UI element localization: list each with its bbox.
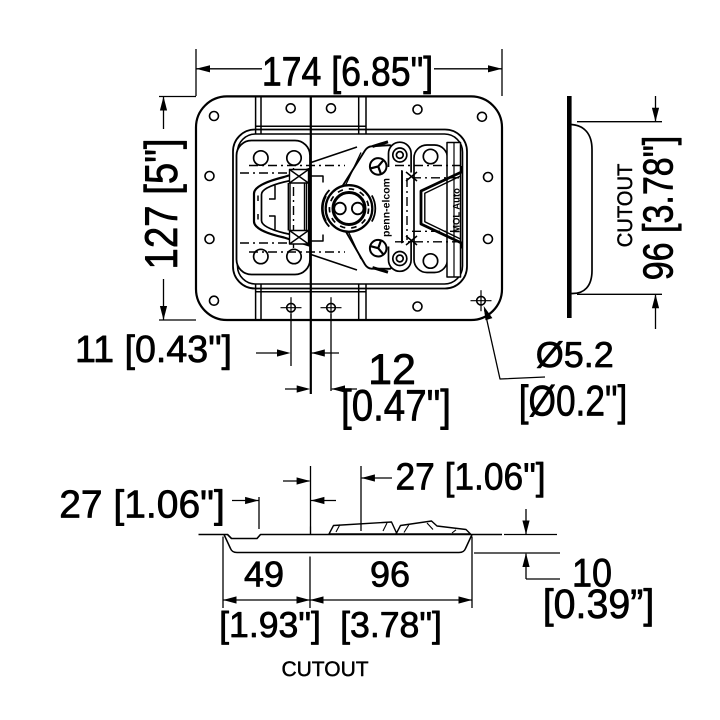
- rotor outer circle: [326, 185, 373, 232]
- dim 49 arrow right: [297, 596, 311, 603]
- dim 27L arrow: [245, 497, 259, 504]
- dim 10 arrow top: [522, 521, 529, 535]
- dim 12 line right: [332, 388, 357, 390]
- lid/body joint centerline: [310, 96, 312, 394]
- svg-text:[3.78"]: [3.78"]: [340, 604, 442, 645]
- dim 96 arrow left: [310, 596, 324, 603]
- svg-text:49: 49: [244, 554, 284, 595]
- hidden dash right upper b: [412, 177, 461, 179]
- rotor housing arc left: [322, 190, 330, 227]
- side view pan profile: [572, 125, 593, 294]
- left keeper pad: [237, 141, 311, 275]
- dim 27L ext: [258, 497, 260, 529]
- pad rivet top-left: [254, 151, 268, 165]
- mounting hole left upper: [205, 172, 214, 181]
- spring pin boss bottom: [389, 241, 412, 271]
- rotor hole right: [352, 203, 364, 215]
- dim 10 ext bottom: [474, 552, 560, 554]
- hidden dash line lower a: [240, 242, 311, 244]
- mounting hole left lower: [205, 235, 214, 244]
- hidden dash right lower b: [395, 241, 461, 243]
- svg-text:[0.39”]: [0.39”]: [543, 581, 655, 627]
- weld box lower with cross: [290, 231, 309, 245]
- plate inner edge top: [337, 153, 362, 205]
- dim 10 arrow bottom stem: [526, 554, 560, 579]
- pad rivet bottom-right: [287, 249, 301, 263]
- wedge 2 hatch: [404, 523, 456, 533]
- plate hidden edge dash b: [406, 178, 408, 240]
- dim 12 arrow left: [297, 385, 311, 392]
- dim 174 line left: [196, 68, 262, 70]
- claw hook outer: [254, 169, 309, 246]
- hidden dash line upper a: [249, 165, 345, 167]
- rotor housing arc right: [372, 195, 375, 221]
- strap edge vertical a: [287, 183, 289, 231]
- dim 27R ext: [360, 466, 362, 531]
- claw base vertical a: [304, 183, 306, 233]
- spring pin boss top: [389, 142, 412, 172]
- left strap line a: [255, 96, 257, 320]
- rivet hole bottom 3 with centermark: [321, 297, 342, 318]
- dim 96 arrow right: [459, 596, 473, 603]
- arm diagonal top a: [311, 147, 357, 163]
- side cutout dim line bottom: [655, 295, 657, 329]
- dim 127 ext line top: [159, 96, 196, 98]
- wire anchor hatch bottom: [406, 236, 417, 245]
- dim 96 line: [310, 599, 472, 601]
- recess rim inner: [238, 134, 463, 284]
- side cutout ext top: [577, 121, 662, 123]
- screw top phillips: [370, 158, 387, 175]
- dim 10 ext top: [504, 534, 557, 536]
- mounting hole right upper: [484, 173, 493, 182]
- hidden dash line lower b: [249, 251, 345, 253]
- wire anchor hatch top: [406, 172, 417, 181]
- mounting hole right lower: [484, 235, 493, 244]
- cutout ext mid: [309, 557, 311, 609]
- hidden dash right upper a: [395, 165, 461, 167]
- cutout ext right: [471, 537, 473, 609]
- mounting hole top 4: [413, 105, 422, 114]
- recess rim outer: [233, 130, 467, 289]
- bottom flange line: [199, 535, 503, 539]
- dim 174 ext line right: [501, 49, 503, 96]
- recess bridge bottom: [256, 291, 366, 293]
- dim 27 mid line: [283, 480, 310, 482]
- dim 11 arrow: [277, 349, 291, 356]
- bottom joint tick: [310, 527, 312, 535]
- svg-text:[1.93"]: [1.93"]: [219, 604, 321, 645]
- rotor knurl ring: [329, 189, 368, 228]
- svg-text:96 [3.78"]: 96 [3.78"]: [635, 136, 682, 280]
- right keeper pad: [414, 145, 448, 273]
- mounting hole bottom-left corner: [210, 296, 219, 305]
- dim 174 ext line left: [195, 49, 197, 96]
- bottom latch profile wedge 2: [396, 521, 471, 534]
- dim 10 arrow bottom: [522, 553, 529, 567]
- svg-text:27 [1.06"]: 27 [1.06"]: [59, 484, 225, 527]
- svg-text:Ø5.2: Ø5.2: [536, 334, 614, 375]
- dim 10 arrow top stem: [525, 509, 527, 534]
- outer dish pan: [196, 96, 502, 320]
- claw step lower: [269, 216, 275, 230]
- right pad rivet top: [423, 149, 437, 163]
- svg-text:96: 96: [370, 554, 410, 595]
- pad rivet bottom-left: [254, 249, 268, 263]
- svg-text:11 [0.43"]: 11 [0.43"]: [75, 329, 232, 371]
- mid strap line b: [365, 96, 367, 320]
- plate corner fold bottom: [373, 268, 389, 273]
- dim 11 line: [256, 352, 288, 354]
- plate corner fold top: [373, 142, 389, 147]
- dim 127 line bottom: [163, 279, 165, 320]
- bottom pan profile: [224, 535, 472, 553]
- dim 49 arrow left: [223, 596, 237, 603]
- spring wire: [421, 166, 462, 249]
- svg-text:[0.47"]: [0.47"]: [341, 382, 451, 431]
- claw hook inner line: [262, 180, 294, 235]
- svg-text:27 [1.06"]: 27 [1.06"]: [395, 457, 545, 499]
- svg-text:MOL Auto: MOL Auto: [452, 188, 463, 233]
- mid strap line a: [358, 96, 360, 320]
- svg-text:127 [5"]: 127 [5"]: [135, 138, 187, 269]
- dim 27R arrow: [361, 474, 375, 481]
- rivet hole bottom 2 with centermark: [281, 297, 302, 318]
- claw base vertical b: [306, 183, 308, 233]
- dim 27 centre ext: [310, 466, 312, 527]
- dim 12 arrow right: [332, 385, 346, 392]
- mounting hole bottom-right with centermark: [471, 290, 492, 311]
- rotor hole left: [334, 203, 346, 215]
- dim 127 arrow bottom: [160, 306, 167, 320]
- dim 11 arrow right: [311, 349, 325, 356]
- plate inner edge bottom: [337, 206, 362, 259]
- rotor inner circle: [333, 193, 365, 225]
- wedge 1 hatch: [336, 523, 387, 532]
- leader dia5.2: [485, 310, 546, 380]
- lock body plate: [331, 145, 403, 269]
- claw step upper: [269, 186, 275, 200]
- dim 174 arrow right: [488, 65, 502, 72]
- dim 174 arrow left: [196, 65, 210, 72]
- dim 27 mid arrow: [297, 477, 311, 484]
- cutout ext left: [222, 537, 224, 609]
- strap edge vertical b: [289, 183, 291, 231]
- side view flange bar: [567, 96, 572, 318]
- dim 127 arrow top: [160, 97, 167, 111]
- dim 27R line: [362, 477, 392, 479]
- hidden dash line upper b: [240, 172, 311, 174]
- side cutout ext bottom: [577, 293, 662, 295]
- pad rivet top-right: [287, 151, 301, 165]
- dim 127 line top: [163, 97, 165, 130]
- dim 49 line: [223, 599, 310, 601]
- mounting hole top-left corner: [210, 112, 219, 121]
- dim 12 ext hole2: [330, 314, 332, 391]
- svg-text:penn-elcom: penn-elcom: [381, 178, 393, 237]
- mounting hole top-right corner: [478, 112, 487, 121]
- label strap inner line: [453, 143, 455, 278]
- jaw step top: [311, 176, 323, 183]
- side cutout arrow top: [652, 108, 659, 122]
- side cutout dim line top: [655, 96, 657, 121]
- dim 27L line b: [311, 500, 336, 502]
- plate hidden edge dash a: [397, 168, 399, 248]
- leader arrow: [484, 306, 493, 320]
- claw tip notch: [257, 196, 259, 220]
- arm diagonal bottom a: [311, 255, 357, 271]
- dim 27L arrow b: [311, 497, 325, 504]
- mounting hole bottom 4: [413, 302, 422, 311]
- dim 11 line right: [312, 352, 340, 354]
- svg-text:[Ø0.2"]: [Ø0.2"]: [519, 378, 628, 426]
- hidden dash right lower a: [412, 230, 461, 232]
- label strap MOL: [447, 143, 461, 278]
- svg-text:174 [6.85"]: 174 [6.85"]: [262, 49, 433, 95]
- spring wire inner: [425, 176, 461, 239]
- svg-text:CUTOUT: CUTOUT: [281, 658, 368, 681]
- dim 174 line right: [434, 68, 502, 70]
- jaw step bottom: [311, 235, 323, 242]
- screw bottom phillips: [370, 240, 387, 257]
- right pad rivet bottom: [423, 254, 437, 268]
- bottom latch profile wedge 1: [329, 522, 397, 534]
- weld box upper with cross: [290, 170, 309, 184]
- mounting hole top 3: [327, 104, 336, 113]
- left strap line b: [260, 96, 262, 320]
- recess bridge top: [256, 125, 366, 127]
- side cutout arrow bottom: [652, 294, 659, 308]
- claw strap centre dash: [293, 168, 295, 248]
- mounting hole top 2: [286, 104, 295, 113]
- dim 127 ext line bottom: [159, 319, 196, 321]
- dim 11 ext hole1: [290, 314, 292, 366]
- dim 27L line: [232, 500, 259, 502]
- dim 12 line left: [285, 388, 307, 390]
